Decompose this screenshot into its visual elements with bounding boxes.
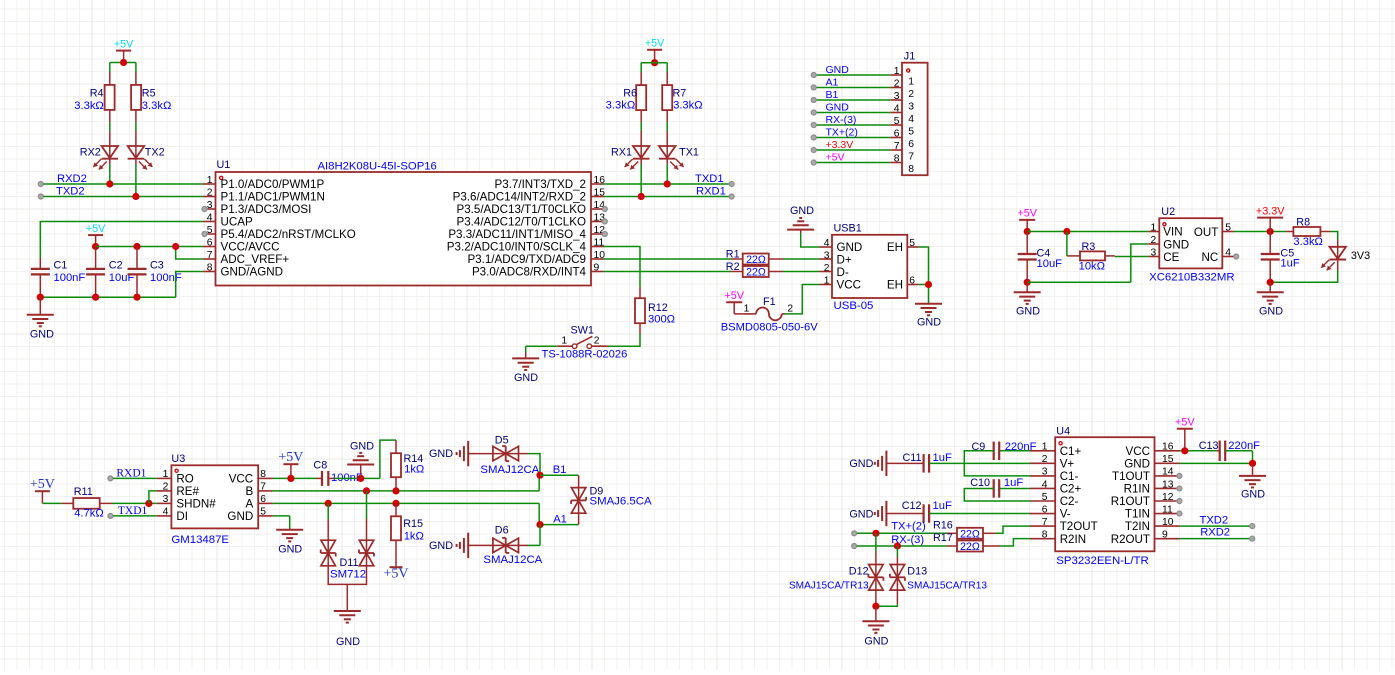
svg-text:T2IN: T2IN — [1125, 520, 1150, 533]
J1 net labels — [826, 64, 858, 164]
svg-text:R8: R8 — [1296, 217, 1310, 229]
svg-text:USB1: USB1 — [834, 223, 862, 235]
junction — [925, 281, 932, 288]
svg-text:6: 6 — [894, 128, 900, 139]
svg-text:AI8H2K08U-45I-SOP16: AI8H2K08U-45I-SOP16 — [318, 161, 437, 173]
svg-text:16: 16 — [594, 175, 606, 186]
svg-text:UCAP: UCAP — [221, 216, 253, 229]
svg-text:3.3kΩ: 3.3kΩ — [673, 100, 703, 112]
U4 pin stubs — [1030, 451, 1180, 539]
svg-text:16: 16 — [1162, 442, 1174, 453]
net label B1 — [553, 464, 567, 476]
U2 pin numbers — [1150, 222, 1231, 258]
svg-text:5: 5 — [894, 116, 900, 127]
wire +5V to R4/R5 — [110, 63, 136, 85]
svg-text:SHDN#: SHDN# — [176, 498, 216, 511]
svg-text:+5V: +5V — [30, 477, 55, 492]
resistor R5 — [131, 85, 171, 112]
svg-text:3: 3 — [163, 494, 169, 505]
svg-text:R1OUT: R1OUT — [1111, 495, 1150, 508]
wire R11 to U3 SHDN# — [100, 502, 157, 504]
capacitor C9 220nF — [964, 441, 1036, 476]
ground (C4) — [1014, 282, 1041, 317]
svg-text:8: 8 — [894, 153, 900, 164]
svg-text:1kΩ: 1kΩ — [404, 531, 424, 543]
U1 pin numbers — [207, 175, 605, 273]
svg-text:T1IN: T1IN — [1125, 508, 1150, 521]
svg-text:C11: C11 — [902, 452, 921, 464]
svg-text:B1: B1 — [553, 464, 567, 476]
svg-text:2: 2 — [1150, 235, 1156, 246]
svg-text:R2OUT: R2OUT — [1111, 533, 1150, 546]
junction — [1181, 447, 1188, 454]
svg-text:10: 10 — [594, 250, 606, 261]
svg-text:A1: A1 — [553, 513, 567, 525]
svg-text:T2OUT: T2OUT — [1060, 520, 1098, 533]
resistor R2 22ohm — [726, 261, 769, 279]
svg-text:TXD2: TXD2 — [56, 186, 85, 198]
svg-text:4: 4 — [894, 103, 900, 114]
wire U2 OUT to +3.3V / R8 — [1234, 231, 1294, 233]
wire C4 gnd net to U2 GND pin — [1027, 244, 1148, 282]
svg-text:9: 9 — [1162, 529, 1168, 540]
svg-text:1: 1 — [561, 336, 567, 347]
wire net TXD1 (pin16) — [604, 180, 735, 187]
svg-text:6: 6 — [260, 494, 266, 505]
svg-text:15: 15 — [594, 187, 606, 198]
svg-text:TX+(2): TX+(2) — [891, 521, 926, 533]
wire net A (U3 pin A) — [273, 503, 539, 524]
junction — [1024, 279, 1031, 286]
svg-text:3: 3 — [1042, 467, 1048, 478]
wire P3.1 to R1 — [604, 258, 743, 260]
svg-text:+5V: +5V — [724, 290, 744, 302]
svg-text:C1+: C1+ — [1060, 445, 1082, 458]
svg-text:GND: GND — [278, 544, 302, 556]
svg-text:TXD2: TXD2 — [1200, 514, 1229, 526]
svg-text:D6: D6 — [495, 525, 509, 537]
U2 pin names — [1163, 226, 1218, 264]
USB1 left pin stubs — [820, 246, 833, 248]
svg-text:T1OUT: T1OUT — [1112, 470, 1150, 483]
junction D11/A — [325, 500, 332, 507]
chip U4 SP3232EEN-L/TR body — [1055, 426, 1154, 568]
svg-text:+5V: +5V — [1017, 208, 1037, 220]
U4 unconnected pins 14,13,12,11 terminals — [1177, 473, 1182, 516]
TVS diode D6 SMAJ12CA — [468, 525, 542, 567]
svg-text:RXD1: RXD1 — [696, 186, 726, 198]
ground (USB1 pin4, inverted) — [787, 205, 819, 247]
LED TX1 — [659, 146, 699, 170]
net label TXD2 — [56, 186, 85, 198]
wire net TXD2 (pin10) — [1180, 524, 1255, 529]
resistor R3 — [1079, 241, 1105, 273]
svg-text:U1: U1 — [217, 159, 231, 171]
connector J1 body — [902, 51, 928, 176]
svg-text:GND: GND — [917, 317, 941, 329]
wire +5V to R6/R7 — [641, 63, 667, 85]
svg-text:P1.1/ADC1/PWM1N: P1.1/ADC1/PWM1N — [221, 191, 325, 204]
svg-text:EH: EH — [887, 279, 903, 292]
svg-text:RXD2: RXD2 — [1200, 527, 1230, 539]
wire net RXD2 (pin9) — [1180, 536, 1255, 541]
svg-text:10uF: 10uF — [1037, 258, 1063, 270]
svg-text:5: 5 — [1042, 492, 1048, 503]
svg-text:D11: D11 — [340, 557, 359, 569]
wire R5 to TX2 — [135, 110, 137, 146]
svg-text:D-: D- — [837, 266, 849, 279]
ground (C11, rotated) — [849, 451, 886, 476]
wire pin11 to R12 — [604, 247, 641, 299]
svg-text:3: 3 — [824, 250, 830, 261]
svg-text:7: 7 — [260, 482, 266, 493]
J1 pin stubs and wires — [811, 73, 902, 166]
svg-text:R17: R17 — [933, 532, 953, 544]
junction — [651, 59, 658, 66]
svg-text:VCC: VCC — [229, 473, 253, 486]
svg-text:P3.5/ADC13/T1/T0CLKO: P3.5/ADC13/T1/T0CLKO — [456, 203, 586, 216]
connector USB1 USB-05 body — [832, 223, 907, 313]
fuse F1 BSMD0805-050-6V — [721, 296, 819, 333]
resistor R14 — [391, 453, 424, 477]
svg-text:V+: V+ — [1060, 457, 1075, 470]
svg-text:5: 5 — [207, 225, 213, 236]
junction B1 — [536, 472, 543, 479]
junction — [92, 243, 99, 250]
U1 unconnected pins 14,13,12 terminals — [602, 207, 607, 237]
svg-text:C10: C10 — [970, 477, 990, 489]
capacitor C11 1uF — [886, 452, 1030, 473]
svg-text:P3.4/ADC12/T0/T1CLKO: P3.4/ADC12/T0/T1CLKO — [456, 216, 586, 229]
svg-text:12: 12 — [1162, 492, 1174, 503]
svg-text:R1IN: R1IN — [1124, 483, 1150, 496]
svg-text:5: 5 — [1225, 222, 1231, 233]
chip U3 GM13487E body — [171, 453, 258, 546]
svg-text:RXD1: RXD1 — [116, 467, 146, 479]
svg-text:11: 11 — [594, 237, 605, 248]
svg-text:P3.2/ADC10/INT0/SCLK_4: P3.2/ADC10/INT0/SCLK_4 — [447, 241, 587, 254]
svg-text:10: 10 — [1162, 517, 1174, 528]
wire net B (U3 pin B) — [273, 475, 539, 491]
svg-text:2: 2 — [594, 336, 600, 347]
svg-text:6: 6 — [1042, 504, 1048, 515]
wire TX1 to net TXD1 — [666, 159, 668, 184]
resistor R4 — [74, 85, 114, 112]
svg-text:D+: D+ — [837, 254, 852, 267]
TVS diode D11 SM712 — [321, 491, 374, 611]
svg-text:14: 14 — [1162, 467, 1174, 478]
J1 pin numbers inside — [908, 77, 914, 176]
junction A1 — [536, 521, 543, 528]
wire R3 to U2 CE — [1105, 255, 1148, 258]
ground (D12/D13) — [862, 606, 889, 647]
ground (USB1 EH) — [915, 303, 942, 329]
wire GND bottom net — [40, 272, 203, 298]
power flag +5V (R11, serif) — [30, 477, 55, 503]
power flag +5V (top-left) — [114, 38, 134, 62]
junction — [287, 475, 294, 482]
svg-text:BSMD0805-050-6V: BSMD0805-050-6V — [721, 321, 819, 333]
svg-text:+3.3V: +3.3V — [1256, 205, 1285, 217]
svg-text:R6: R6 — [623, 87, 637, 99]
svg-text:1: 1 — [163, 469, 169, 480]
svg-text:GND: GND — [227, 510, 253, 523]
svg-text:1: 1 — [207, 175, 213, 186]
svg-text:C1: C1 — [54, 259, 68, 271]
svg-text:1: 1 — [1042, 442, 1048, 453]
U3 pin numbers — [163, 469, 267, 518]
capacitor C4 — [1018, 232, 1062, 283]
svg-text:SMAJ15CA/TR13: SMAJ15CA/TR13 — [907, 581, 987, 592]
svg-text:R16: R16 — [933, 519, 953, 531]
svg-text:9: 9 — [594, 262, 600, 273]
net label RXD2 — [57, 173, 87, 185]
svg-text:+5V: +5V — [1175, 417, 1195, 429]
TVS diode D9 SMAJ6.5CA — [571, 485, 652, 513]
svg-text:SMAJ15CA/TR13: SMAJ15CA/TR13 — [789, 581, 869, 592]
svg-text:TX2: TX2 — [145, 146, 165, 158]
svg-text:22Ω: 22Ω — [960, 529, 980, 541]
svg-text:U3: U3 — [171, 453, 185, 465]
capacitor C8 — [313, 460, 362, 486]
svg-text:U2: U2 — [1161, 206, 1175, 218]
svg-text:R12: R12 — [648, 302, 668, 314]
svg-text:P3.6/ADC14/INT2/RXD_2: P3.6/ADC14/INT2/RXD_2 — [453, 191, 586, 204]
svg-text:NC: NC — [1202, 251, 1219, 264]
svg-text:EH: EH — [887, 241, 903, 254]
junction D12 — [872, 530, 879, 537]
svg-text:13: 13 — [1162, 479, 1174, 490]
LED RX1 — [611, 146, 649, 170]
wire SHDN to RE# — [149, 491, 157, 504]
svg-text:SMAJ12CA: SMAJ12CA — [480, 464, 539, 476]
wire C8 to R14 top — [328, 440, 396, 478]
wire R7 to TX1 — [666, 110, 668, 146]
power flag +5V (R6/R7) — [645, 38, 665, 63]
junction — [1267, 228, 1274, 235]
svg-text:100nF: 100nF — [150, 272, 182, 284]
svg-text:GND: GND — [514, 372, 538, 384]
svg-text:P5.4/ADC2/nRST/MCLKO: P5.4/ADC2/nRST/MCLKO — [221, 228, 356, 241]
svg-text:SM712: SM712 — [330, 569, 366, 581]
svg-text:22Ω: 22Ω — [960, 541, 980, 553]
svg-text:D5: D5 — [495, 435, 509, 447]
svg-text:F1: F1 — [763, 296, 776, 308]
svg-text:3: 3 — [1150, 247, 1156, 258]
junction R14/B — [392, 487, 399, 494]
LED RX2 — [80, 146, 118, 170]
capacitor C10 1uF — [964, 477, 1030, 501]
power flag +5V (C4) — [1017, 208, 1037, 232]
junction C3 top — [133, 243, 179, 250]
wire R6 to RX1 — [640, 110, 642, 146]
svg-text:A1: A1 — [826, 76, 839, 88]
svg-text:3: 3 — [894, 91, 900, 102]
wire A1 to D6 — [528, 525, 540, 546]
power flag +5V (F1) — [724, 290, 744, 314]
svg-text:3: 3 — [207, 200, 213, 211]
svg-text:VCC: VCC — [837, 279, 861, 292]
wire R17 to U4 R2IN — [983, 539, 1030, 546]
svg-text:GND: GND — [350, 440, 374, 452]
svg-text:TX1: TX1 — [679, 146, 699, 158]
svg-text:7: 7 — [207, 250, 213, 261]
chip U2 XC6210B332MR — [1149, 206, 1234, 284]
svg-text:R7: R7 — [673, 87, 687, 99]
wire RX1 to net RXD1 — [640, 159, 642, 197]
svg-text:8: 8 — [260, 469, 266, 480]
wire LED TX2 to net TXD2 — [135, 159, 137, 197]
junction — [145, 500, 152, 507]
svg-text:22Ω: 22Ω — [746, 254, 766, 266]
ground (U3 pin5) — [276, 528, 303, 556]
USB1 pin names — [837, 241, 904, 292]
svg-text:10kΩ: 10kΩ — [1079, 261, 1105, 273]
svg-text:4: 4 — [207, 212, 213, 223]
svg-text:C1-: C1- — [1060, 470, 1079, 483]
svg-text:7: 7 — [908, 152, 914, 163]
svg-text:+5V: +5V — [645, 38, 665, 50]
svg-text:2: 2 — [787, 304, 793, 315]
resistor R15 — [391, 503, 424, 542]
svg-text:GND: GND — [1163, 238, 1189, 251]
ground (C5) — [1257, 282, 1284, 317]
svg-text:USB-05: USB-05 — [834, 300, 874, 312]
resistor R8 — [1293, 217, 1323, 249]
svg-text:R3: R3 — [1082, 241, 1096, 253]
power flag +5V (R15, serif, below) — [383, 540, 408, 581]
svg-text:+5V: +5V — [278, 450, 303, 465]
net label RXD1 — [696, 186, 726, 198]
ground (C12, rotated) — [849, 501, 886, 526]
wire USB1 VCC to F1 — [785, 285, 832, 314]
resistor R6 — [606, 85, 647, 111]
resistor R16 22ohm — [933, 519, 983, 540]
junction — [1024, 228, 1031, 235]
LED TX2 — [128, 146, 165, 170]
svg-text:2: 2 — [824, 263, 830, 274]
U1 right pin stubs — [591, 184, 604, 272]
svg-text:+5V: +5V — [383, 567, 408, 582]
capacitor C3 — [128, 259, 182, 284]
svg-text:3.3kΩ: 3.3kΩ — [1293, 236, 1323, 248]
svg-text:C9: C9 — [971, 441, 985, 453]
resistor R12 — [635, 298, 675, 325]
svg-text:GND: GND — [849, 458, 873, 470]
svg-text:C2-: C2- — [1060, 495, 1079, 508]
svg-text:VIN: VIN — [1163, 226, 1182, 239]
resistor R7 — [662, 85, 702, 111]
svg-text:VCC/AVCC: VCC/AVCC — [221, 241, 280, 254]
svg-text:P1.3/ADC3/MOSI: P1.3/ADC3/MOSI — [221, 203, 312, 216]
net label TXD1 — [695, 173, 724, 185]
svg-text:TS-1088R-02026: TS-1088R-02026 — [542, 348, 628, 360]
svg-text:+5V: +5V — [86, 223, 106, 235]
wire VCC net — [96, 247, 203, 260]
svg-text:GND: GND — [826, 64, 850, 76]
wire B1 to D9 — [540, 475, 579, 487]
svg-text:+5V: +5V — [826, 151, 845, 163]
wire net RX-(3) — [852, 544, 957, 549]
svg-text:5: 5 — [260, 507, 266, 518]
svg-text:220nF: 220nF — [1228, 440, 1260, 452]
svg-text:U4: U4 — [1056, 426, 1070, 438]
svg-text:J1: J1 — [904, 51, 915, 63]
power flag +5V (C2) — [86, 223, 106, 247]
capacitor C1 — [31, 259, 86, 284]
wire net TXD2 — [38, 193, 203, 200]
U2 pin stubs — [1148, 232, 1234, 257]
net label TXD2 — [1200, 514, 1229, 526]
svg-text:B1: B1 — [826, 89, 839, 101]
wire U4 GND net — [1180, 462, 1253, 464]
resistor R17 22ohm — [933, 532, 983, 553]
power flag +5V (U4 VCC) — [1175, 417, 1195, 451]
svg-text:C2+: C2+ — [1060, 483, 1082, 496]
svg-text:D12: D12 — [849, 566, 869, 578]
svg-text:OUT: OUT — [1194, 226, 1218, 239]
U4 pin numbers — [1042, 442, 1174, 541]
svg-text:3V3: 3V3 — [1351, 250, 1370, 262]
svg-text:GND: GND — [864, 636, 888, 648]
wire R14 bottom to B row — [395, 477, 397, 491]
svg-text:C3: C3 — [150, 259, 164, 271]
wire P3.0 to R2 — [604, 271, 743, 273]
svg-text:2: 2 — [908, 89, 914, 100]
svg-text:RX2: RX2 — [80, 146, 101, 158]
svg-text:RX-(3): RX-(3) — [826, 114, 857, 126]
svg-text:R4: R4 — [90, 87, 104, 99]
svg-text:RXD2: RXD2 — [57, 173, 87, 185]
svg-text:4.7kΩ: 4.7kΩ — [74, 507, 104, 519]
TVS diode D5 SMAJ12CA — [468, 435, 540, 476]
chip U1 AI8H2K08U-45I-SOP16 — [216, 159, 592, 286]
svg-text:8: 8 — [207, 262, 213, 273]
svg-text:1uF: 1uF — [933, 500, 952, 512]
svg-text:7: 7 — [894, 141, 900, 152]
svg-text:100nF: 100nF — [54, 272, 86, 284]
svg-text:7: 7 — [1042, 517, 1048, 528]
svg-text:C8: C8 — [313, 460, 327, 472]
ground (D5, rotated) — [429, 441, 468, 466]
svg-text:8: 8 — [1042, 529, 1048, 540]
ground (C1) — [27, 297, 54, 340]
net label RXD1 — [116, 467, 146, 479]
wire R2 to USB D- — [769, 271, 832, 273]
svg-text:1: 1 — [744, 304, 750, 315]
U1 unconnected pins 3,5 terminals — [202, 207, 207, 237]
junction R15/A — [392, 500, 399, 507]
TVS diode D12 SMAJ15CA/TR13 — [789, 533, 883, 606]
LED 3V3 — [1321, 247, 1370, 270]
junction D11/B — [363, 487, 370, 494]
svg-text:SW1: SW1 — [571, 325, 594, 337]
svg-text:P3.7/INT3/TXD_2: P3.7/INT3/TXD_2 — [495, 178, 587, 191]
svg-text:GND: GND — [1241, 489, 1265, 501]
wire U4 VCC net — [1180, 450, 1220, 452]
ground (C8, inverted) — [347, 440, 374, 478]
power flag +5V (U3 VCC, serif) — [278, 450, 303, 478]
svg-text:3: 3 — [908, 102, 914, 113]
wire SW1 to ground — [526, 346, 558, 358]
U3 pin stubs — [157, 478, 273, 516]
svg-text:2: 2 — [894, 78, 900, 89]
svg-text:D13: D13 — [907, 566, 927, 578]
ground (SW1) — [512, 358, 539, 384]
svg-text:11: 11 — [1162, 504, 1173, 515]
wire R3 branch down — [1067, 232, 1080, 256]
capacitor C2 — [86, 259, 134, 284]
